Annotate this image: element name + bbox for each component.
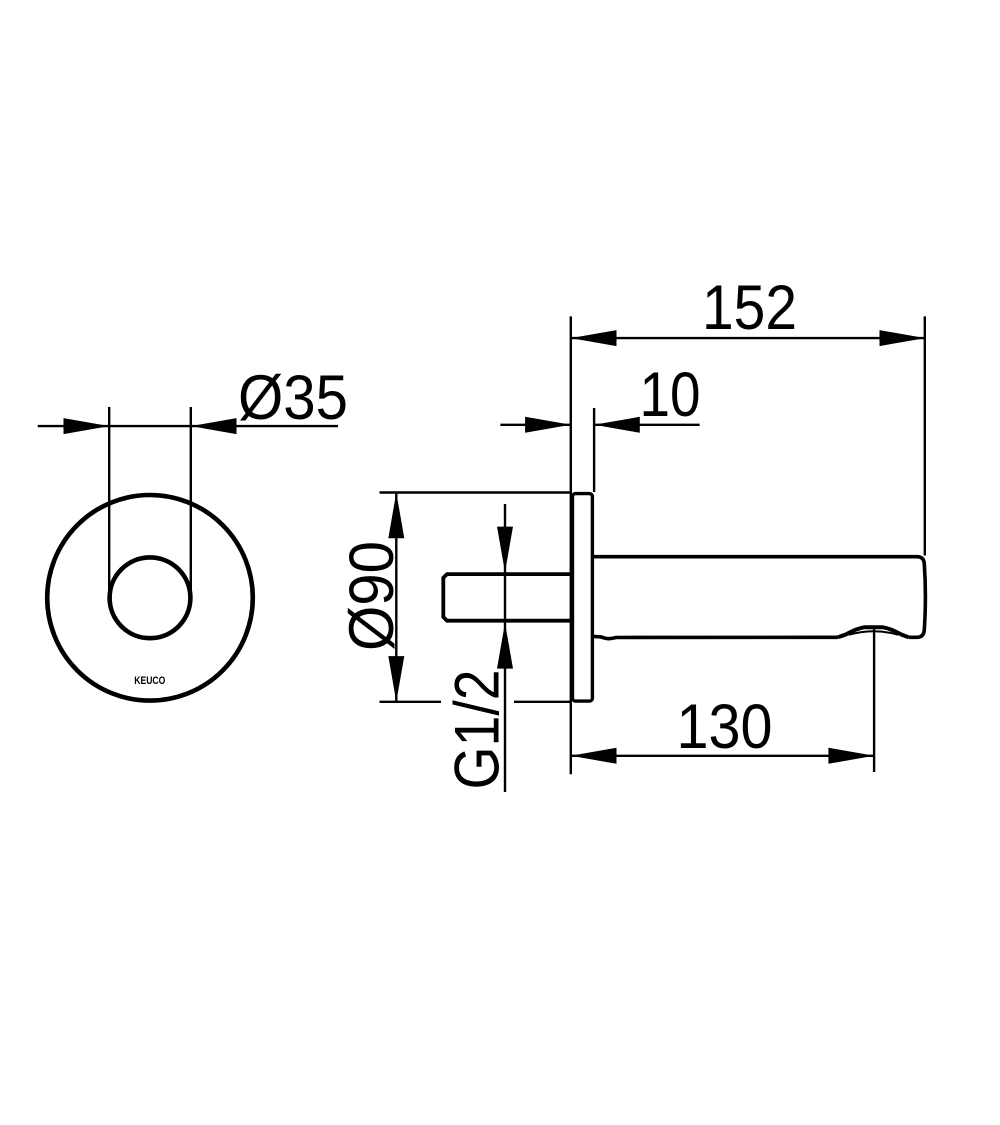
svg-text:Ø35: Ø35 [238,363,348,433]
side view: wall face extension line [570,316,572,774]
svg-text:10: 10 [640,360,701,430]
front view: spout tube inner circle [110,557,191,638]
dimension G1/2: top arrow [497,527,513,573]
dimension 130: left arrow [571,748,617,764]
dimension 10: left line segment [500,424,570,426]
side view: aerator inner arc [849,631,898,635]
dimension 152: left arrow [571,330,617,346]
front view: wall plate outer circle [47,495,253,701]
dimension Ø35: left extension line [108,407,110,597]
dimension 152: right arrow [880,330,926,346]
side view: spout tube outline [594,557,925,638]
dimension 10: right extension line [593,408,595,492]
svg-text:G1/2: G1/2 [443,670,513,790]
side view: wall plate [573,494,593,701]
side view: aerator outlet dome [838,627,909,637]
svg-text:130: 130 [677,692,773,762]
svg-text:KEUCO: KEUCO [134,675,165,687]
svg-text:Ø90: Ø90 [337,541,407,651]
dimension Ø35: dimension line [38,425,338,427]
side view: spout bottom edge with wave near plate [594,637,838,639]
dimension Ø90: bottom extension line left segment [380,701,442,703]
dimension G1/2: bottom arrow [497,623,513,669]
dimension Ø90: bottom extension line right segment [514,701,572,703]
dimension 152: right extension line [924,316,926,555]
dimension Ø90: top extension line [380,491,573,493]
dimension 152: dimension line [571,337,925,339]
dimension Ø90: bottom arrow [388,656,404,702]
dimension 10: right line segment [594,424,700,426]
dimension 130: right extension line [873,628,875,772]
dimension Ø90: top arrow [388,493,404,539]
dimension Ø35: right extension line [190,407,192,595]
dimension G1/2: leader line [504,504,506,792]
dimension Ø35: left arrow [64,418,110,434]
side view: G1/2 threaded pipe [443,574,571,621]
dimension 10: left arrow [525,417,571,433]
dimension Ø90: dimension line [395,493,397,702]
svg-text:152: 152 [702,273,797,343]
dimension Ø35: right arrow [191,418,237,434]
dimension 130: right arrow [828,748,874,764]
dimension 10: right arrow [594,417,640,433]
dimension 130: dimension line [571,755,874,757]
